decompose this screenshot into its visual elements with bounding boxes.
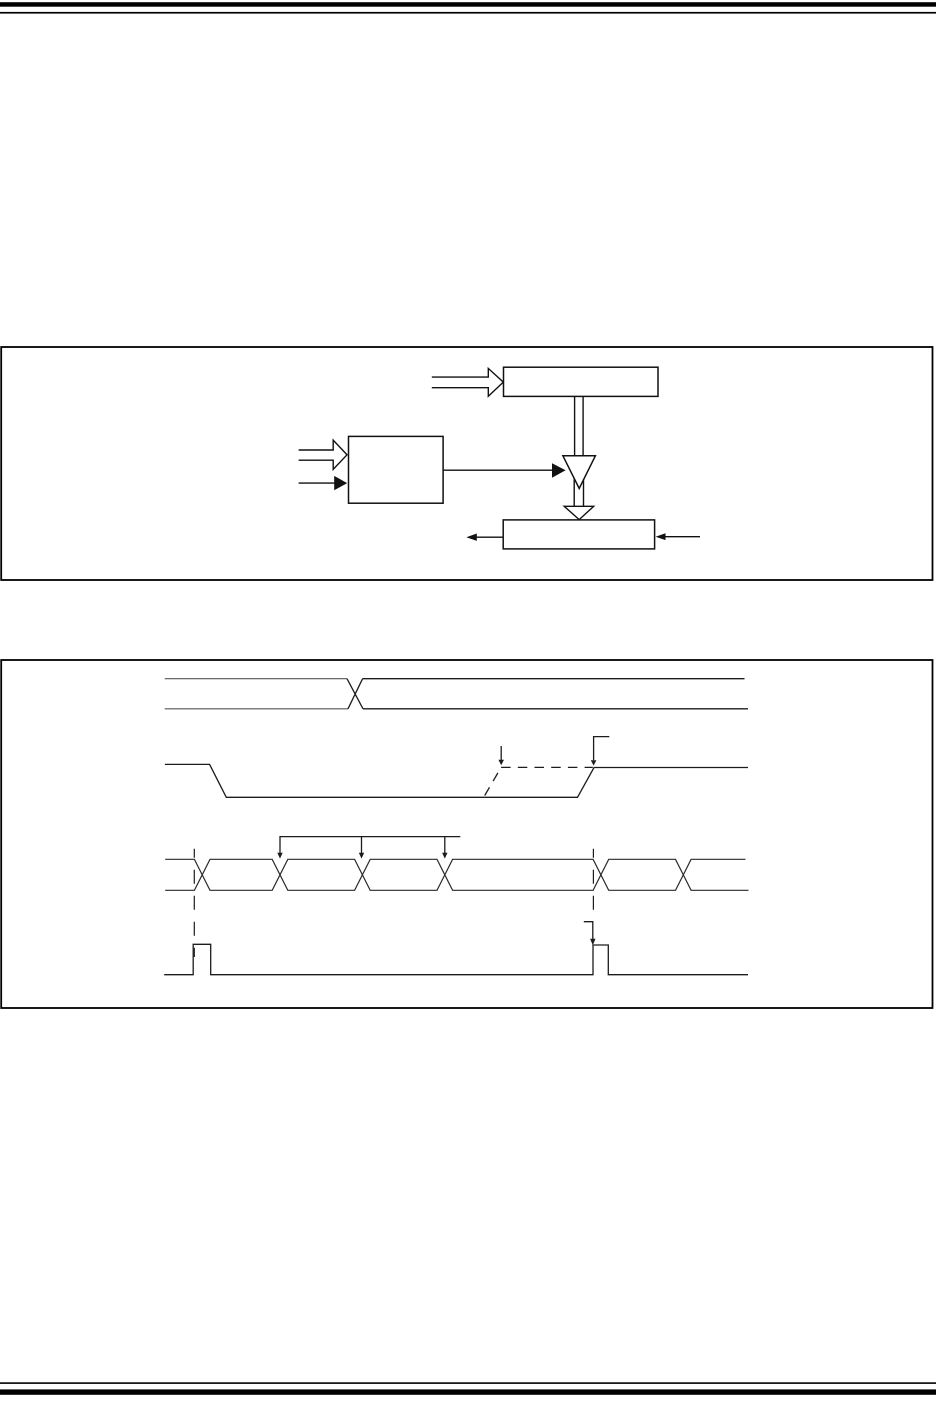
solid arrowhead at tristate buffer [552, 463, 566, 478]
wire : control box to tristate buffer [444, 469, 554, 471]
figure 2 frame [1, 660, 932, 1008]
signal row 4 : interrupt pulse waveform [164, 944, 748, 974]
pointer tick at second pulse [584, 922, 593, 940]
hollow block arrow into control box (upper input) [299, 440, 347, 469]
signal row 1 : right valid segment [363, 679, 748, 709]
block U2 : control logic box (left) [349, 436, 444, 503]
pointer tick at actual rise corner [594, 737, 610, 761]
solid arrowhead pointing left (output) [466, 534, 476, 541]
page header rule (thin) [0, 12, 936, 14]
block U3 : bottom register box [503, 520, 654, 549]
wire : lower input into control box [299, 482, 336, 484]
figure 1 frame [1, 347, 932, 580]
hollow arrowhead into bottom register [564, 506, 594, 519]
signal row 3 : data bus with crossovers, line A [165, 859, 745, 890]
double-line shaft below buffer [573, 479, 575, 507]
block U1 : top register box [504, 367, 659, 396]
bracket arrowhead 1 [277, 853, 282, 859]
wire : input into bottom register from the right [664, 536, 700, 538]
solid arrowhead pointing left into register [656, 533, 666, 540]
tristate buffer triangle (points down) [563, 456, 596, 489]
bracket arrowhead 2 [359, 853, 364, 859]
dashed timing reference line (left) [193, 849, 195, 957]
solid arrowhead on lower input [334, 476, 347, 490]
page footer rule (thick) [0, 1389, 936, 1394]
page header rule (thick) [0, 2, 936, 7]
hollow block arrow into top register (from left) [432, 368, 504, 396]
double-line shaft from top register down [574, 397, 576, 456]
bracket arrowhead 3 [442, 853, 447, 859]
signal row 1 : bus crossover [347, 679, 363, 709]
wire : output from bottom register to the left [475, 536, 503, 538]
signal row 1 : address bus, left valid segment [165, 679, 348, 709]
dashed early-rise diagonal [485, 767, 501, 795]
signal row 3 : data bus with crossovers, line B [165, 859, 748, 890]
dashed timing reference line (right) [592, 849, 594, 910]
signal row 2 : strobe waveform (high-low-high) [165, 764, 748, 797]
dashed high-level extension [501, 766, 593, 768]
pointer arrow at dashed rise corner [500, 746, 502, 760]
page footer rule (thin) [0, 1382, 936, 1384]
bracket over sampled data cells [280, 837, 460, 854]
